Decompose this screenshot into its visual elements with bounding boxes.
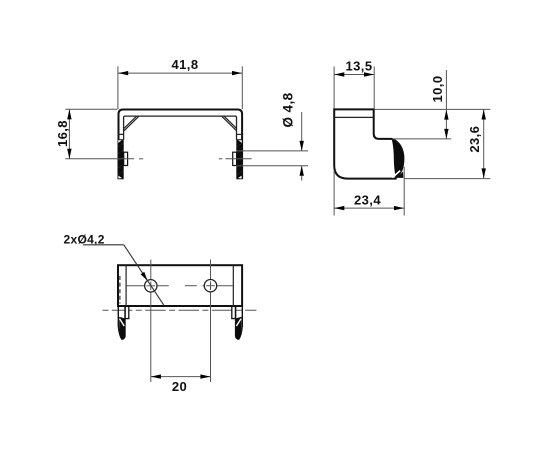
right hole vertical centerline — [210, 260, 212, 383]
right leg hatched section — [236, 140, 242, 180]
left hole — [145, 280, 157, 292]
front view bracket inner profile — [124, 116, 237, 140]
left foot — [118, 306, 129, 339]
left leg hatched section — [118, 140, 124, 180]
svg-text:Ø 4,8: Ø 4,8 — [281, 92, 296, 127]
crescent bottom white slit — [392, 171, 400, 178]
dimension 23,6 — [404, 110, 490, 179]
left stud tab — [124, 152, 128, 165]
right stud tab — [233, 152, 237, 165]
left hole vertical centerline — [150, 260, 152, 383]
svg-text:41,8: 41,8 — [172, 57, 199, 72]
side view top strip inner line — [334, 116, 374, 118]
dimension 10,0 — [374, 70, 490, 139]
left foot slot — [125, 306, 129, 318]
right foot — [232, 306, 243, 339]
svg-text:23,4: 23,4 — [354, 193, 381, 208]
right foot slot — [232, 306, 236, 318]
main horizontal centerline — [103, 309, 257, 311]
dimension 13,5 — [334, 67, 374, 109]
crescent bottom corner wedge — [397, 172, 404, 178]
hole cross ticks — [147, 281, 215, 290]
svg-text:20: 20 — [172, 379, 187, 394]
holes horizontal centerline — [126, 285, 233, 287]
svg-text:16,8: 16,8 — [55, 120, 70, 147]
dimension 41,8 — [118, 66, 242, 109]
svg-text:23,6: 23,6 — [467, 126, 482, 153]
front view bracket outer outline — [119, 110, 243, 180]
left leg band lines — [118, 134, 124, 139]
right leg band lines — [237, 134, 243, 139]
bottom view left inner line — [125, 265, 127, 306]
side view section crescent — [392, 140, 404, 178]
dimension 16,8 — [65, 109, 117, 159]
dimension 20 — [151, 376, 210, 378]
right gusset — [222, 116, 237, 131]
dimension diameter 4,8 — [237, 112, 309, 181]
svg-text:13,5: 13,5 — [346, 58, 373, 73]
front view centerline — [65, 158, 251, 160]
side view profile outline — [334, 109, 403, 178]
bottom view hidden edge (dashed) — [119, 276, 121, 304]
right hole — [204, 280, 216, 292]
svg-text:10,0: 10,0 — [430, 76, 445, 103]
bottom view body outline — [118, 265, 242, 306]
bottom view right inner line — [232, 265, 234, 306]
dimension 23,4 — [334, 167, 404, 216]
left gusset — [124, 116, 139, 131]
